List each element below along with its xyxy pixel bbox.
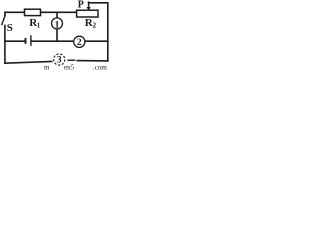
wire meter 2 to right rail	[85, 40, 108, 42]
svg-text:.com: .com	[93, 64, 107, 71]
wire stub above meter 1	[56, 12, 58, 18]
meter 3 (dashed)	[54, 54, 65, 65]
meter 1	[52, 18, 63, 29]
battery long plate	[30, 35, 32, 46]
svg-text:m: m	[44, 64, 50, 71]
battery short plate	[25, 38, 27, 44]
wire dash right of meter 3	[68, 59, 74, 61]
resistor R1	[25, 9, 41, 15]
switch S blade	[2, 16, 5, 25]
svg-text:P: P	[78, 0, 84, 11]
svg-text:2: 2	[77, 38, 82, 48]
wire bottom-left	[5, 62, 52, 64]
svg-text:1: 1	[55, 21, 60, 31]
wire top middle	[41, 11, 77, 13]
svg-text:S: S	[7, 22, 13, 34]
svg-text:1: 1	[37, 21, 41, 29]
potentiometer R2	[77, 10, 98, 17]
svg-text:3: 3	[57, 56, 62, 66]
svg-text:2: 2	[93, 21, 97, 29]
wire left vertical	[4, 25, 6, 63]
meter 2	[74, 36, 85, 47]
wire battery to meter 2	[32, 40, 74, 42]
wire middle-left to battery	[5, 40, 25, 42]
svg-text:en5: en5	[64, 64, 75, 71]
wire stub below meter 1	[56, 29, 58, 41]
wire top-left	[5, 12, 25, 15]
wire bottom-right	[77, 60, 108, 62]
slider arrow	[88, 1, 90, 7]
wire slider to top-right corner and right rail	[89, 3, 108, 61]
